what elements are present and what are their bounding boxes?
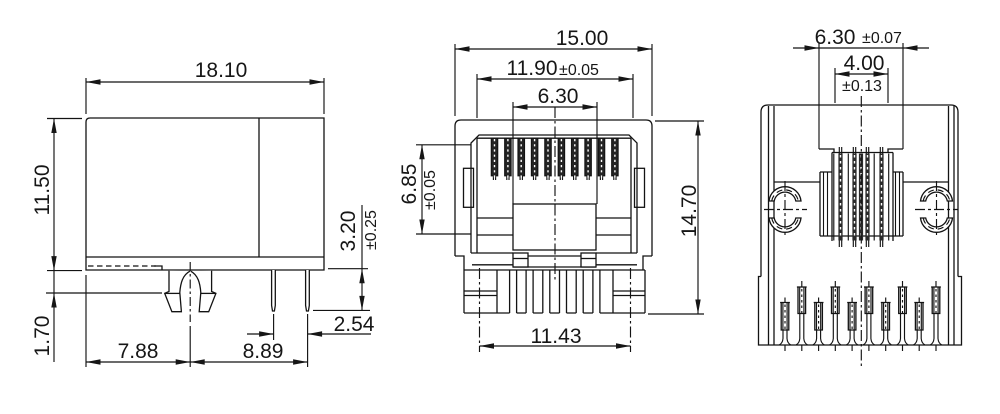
inner wall right (double) xyxy=(949,106,955,345)
cavity right ledge lines xyxy=(596,138,631,253)
pin head caps xyxy=(780,287,941,303)
dim 3.20 line xyxy=(361,205,363,310)
svg-text:8.89: 8.89 xyxy=(243,340,284,363)
pin 1 (side view) xyxy=(272,270,276,311)
latch centerline (dash-dot) xyxy=(189,262,191,322)
dim 11.50 / 1.70 extension lines xyxy=(46,119,162,294)
right solder post top arc band xyxy=(921,187,953,201)
svg-text:11.43: 11.43 xyxy=(531,325,582,348)
center tab xyxy=(513,204,596,250)
dim 7.88 / 8.89 extension lines xyxy=(86,275,308,367)
front view body outline xyxy=(455,120,652,256)
body bottom edge xyxy=(513,266,596,268)
pin head inner edges xyxy=(783,287,938,330)
svg-text:3.20: 3.20 xyxy=(337,211,360,252)
connector body outline (side view) xyxy=(86,118,324,270)
dim 4.00 line xyxy=(835,73,888,75)
body bottom step line xyxy=(86,256,324,258)
dim 11.50 + 1.70 shared dimension line xyxy=(53,119,55,363)
inner shelf lines xyxy=(774,181,949,183)
right solder post top dashed arc xyxy=(923,190,950,201)
svg-text:6.30: 6.30 xyxy=(538,85,579,108)
latch right barb ledge xyxy=(201,292,216,294)
dim 15.00 extension lines xyxy=(455,44,652,116)
body bottom right foot xyxy=(643,256,652,270)
svg-text:18.10: 18.10 xyxy=(195,59,248,82)
dim 11.43 extension centerlines (dash-dot) xyxy=(480,268,631,352)
pin head outlines xyxy=(781,287,940,330)
contact block shell inner edges xyxy=(824,172,900,236)
svg-text:6.30: 6.30 xyxy=(815,26,856,49)
svg-text:±0.07: ±0.07 xyxy=(862,30,902,47)
svg-text:6.85: 6.85 xyxy=(398,164,421,205)
5 contact strips (top view) xyxy=(838,154,883,241)
svg-text:±0.05: ±0.05 xyxy=(422,170,439,210)
dim 4.00 extension lines xyxy=(835,68,888,103)
dim 11.90 extension lines xyxy=(477,74,633,118)
pin 2 (side view) xyxy=(306,270,310,311)
dim 11.43 line xyxy=(480,345,631,347)
left solder post crosshair xyxy=(764,209,807,211)
contact block top xyxy=(832,153,893,242)
svg-text:±0.13: ±0.13 xyxy=(842,78,882,95)
pin stem flares xyxy=(779,339,941,345)
dim 3.20 extension lines xyxy=(313,269,370,311)
thin contact edge lines xyxy=(834,154,889,241)
svg-text:7.88: 7.88 xyxy=(118,340,159,363)
plug entry steps xyxy=(819,149,903,153)
comb outline top xyxy=(464,269,645,271)
cavity top inner line xyxy=(477,137,631,139)
body internal vertical edge xyxy=(258,118,260,257)
comb right block lines xyxy=(613,270,645,313)
left solder post bottom arc band xyxy=(769,218,801,232)
svg-text:±0.05: ±0.05 xyxy=(559,62,599,79)
dim 6.30 extension lines xyxy=(513,102,597,204)
contact strip tails xyxy=(839,147,882,247)
inner wall left (double) xyxy=(769,106,775,345)
dim 2.54 line xyxy=(247,333,371,335)
lower right block xyxy=(581,253,596,267)
board-lock latch right prong xyxy=(191,271,216,312)
left wing xyxy=(464,168,474,207)
dim 6.30 line xyxy=(793,47,929,49)
svg-text:14.70: 14.70 xyxy=(678,185,701,238)
pin top ticks xyxy=(785,281,936,303)
right solder post crosshair xyxy=(915,209,958,211)
contact blade tails xyxy=(493,176,616,180)
pin head center dashes xyxy=(785,289,936,330)
dim 7.88 / 8.89 line xyxy=(86,361,308,363)
contact strip white center dashes xyxy=(841,155,882,239)
pin stems xyxy=(783,314,938,339)
svg-text:4.00: 4.00 xyxy=(844,52,885,75)
svg-text:11.50: 11.50 xyxy=(31,165,54,216)
svg-text:±0.25: ±0.25 xyxy=(363,210,380,250)
dim 6.30 extension lines xyxy=(819,43,903,149)
dim 11.90 line xyxy=(477,78,633,80)
contact block outer shell xyxy=(820,172,903,236)
cavity left ledge lines xyxy=(477,138,513,253)
dim 6.85 line xyxy=(421,145,423,234)
top view outer body xyxy=(761,105,958,277)
latch left barb ledge xyxy=(165,292,180,294)
hidden edge (dashed) xyxy=(88,265,156,267)
dim 6.85 extension lines xyxy=(416,145,471,234)
lower left block xyxy=(513,253,528,267)
body bottom left foot xyxy=(455,256,464,270)
hidden edge end tick xyxy=(154,266,162,270)
dim 14.70 line xyxy=(697,121,699,314)
dim 18.10 line xyxy=(86,81,324,83)
centerline (dash-dot) xyxy=(554,107,556,282)
10 contact blades in cavity xyxy=(491,138,618,176)
dim 15.00 line xyxy=(455,48,652,50)
dim 6.30 line xyxy=(513,106,597,108)
cavity outline xyxy=(471,135,637,253)
right solder post bottom arc band xyxy=(921,218,953,232)
comb bottom edge segments xyxy=(464,312,645,314)
right wing xyxy=(635,168,645,207)
svg-text:2.54: 2.54 xyxy=(334,313,375,336)
comb right edge xyxy=(644,270,646,313)
comb slot edges xyxy=(510,270,600,313)
lower center channel line xyxy=(528,255,581,257)
view centerline (dash-dot) xyxy=(860,96,862,366)
svg-text:11.90: 11.90 xyxy=(507,57,558,80)
dim 14.70 extension lines xyxy=(648,121,704,314)
svg-text:1.70: 1.70 xyxy=(31,316,54,357)
left solder post top arc band xyxy=(769,187,801,201)
body lower skirt outline xyxy=(759,277,962,346)
dim 18.10 extension lines xyxy=(86,78,324,114)
comb left block lines xyxy=(464,270,497,313)
pin tails below board line xyxy=(785,345,936,351)
comb left edge xyxy=(463,270,465,313)
lower shelf lines xyxy=(472,264,637,266)
left solder post top dashed arc xyxy=(772,190,799,201)
svg-text:15.00: 15.00 xyxy=(556,27,609,50)
right solder post bottom dashed arc xyxy=(923,218,950,229)
left solder post bottom dashed arc xyxy=(772,218,799,229)
board-lock latch left prong xyxy=(165,271,190,312)
contact blade white center dashes xyxy=(495,139,615,179)
